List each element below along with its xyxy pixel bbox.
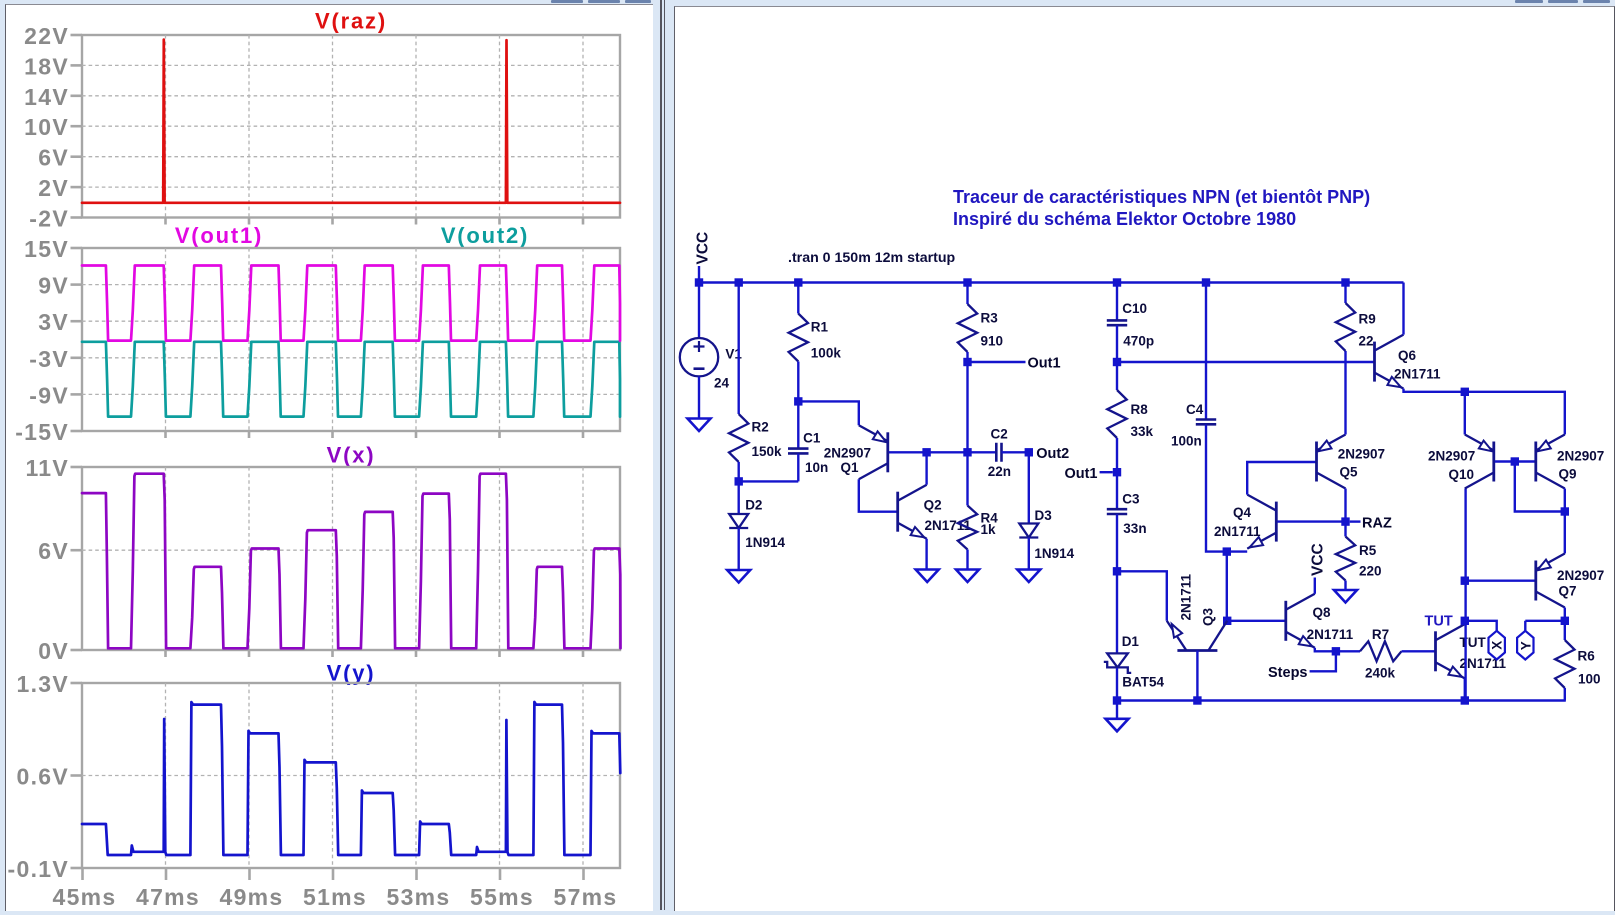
capacitor C10	[1107, 320, 1127, 325]
svg-text:Q1: Q1	[841, 460, 860, 475]
junction rail R3	[963, 278, 971, 286]
svg-text:RAZ: RAZ	[1362, 516, 1392, 532]
resistor R3	[958, 304, 977, 352]
junction Out1 flag node	[1113, 468, 1121, 476]
wire RAZ dash	[1350, 520, 1361, 522]
wire R4 bottom	[966, 550, 968, 570]
svg-text:100: 100	[1578, 672, 1601, 687]
junction node R1/C1/Q1e	[794, 397, 802, 405]
svg-text:D2: D2	[745, 498, 762, 513]
wire Q7 collector stub	[1564, 608, 1566, 621]
svg-text:2V: 2V	[38, 175, 69, 201]
junction C10/R8 node	[1113, 358, 1121, 366]
svg-text:9V: 9V	[38, 273, 69, 299]
svg-text:VCC: VCC	[695, 232, 712, 265]
resistor R9	[1336, 303, 1355, 351]
svg-text:Out2: Out2	[1036, 446, 1069, 462]
svg-text:.tran 0 150m 12m startup: .tran 0 150m 12m startup	[788, 250, 956, 266]
wire C1 bottom to D2 node	[739, 480, 799, 482]
trace V(out2)	[82, 342, 620, 417]
transistor Q1 2N2907	[886, 432, 889, 472]
svg-text:Q8: Q8	[1313, 605, 1332, 620]
trace V(y)	[82, 702, 620, 855]
ground V1	[688, 419, 711, 432]
wire C4 bottom	[1206, 425, 1247, 552]
svg-text:15V: 15V	[24, 236, 69, 262]
diode D1 BAT54	[1107, 653, 1128, 667]
svg-text:22: 22	[1359, 333, 1374, 348]
wire Steps flag	[1310, 651, 1336, 671]
svg-text:BAT54: BAT54	[1122, 675, 1164, 690]
svg-text:C4: C4	[1186, 402, 1204, 417]
wire X port run	[1465, 621, 1497, 631]
svg-text:18V: 18V	[24, 53, 69, 79]
wire C2 right	[1002, 451, 1029, 453]
wire Q10 collector bus	[1464, 489, 1466, 701]
svg-text:Y: Y	[1518, 641, 1533, 650]
wire Q8 emitter stub	[1315, 648, 1336, 652]
ground R5	[1334, 590, 1357, 603]
svg-text:X: X	[1490, 641, 1505, 650]
svg-text:100k: 100k	[811, 345, 842, 360]
wire Q8 collector to VCC flag	[1314, 578, 1316, 594]
svg-text:51ms: 51ms	[303, 884, 367, 910]
wire Q1 base	[889, 451, 996, 453]
wire Q6 emitter run	[1404, 389, 1565, 435]
transistor Q8 2N1711	[1284, 601, 1287, 641]
junction rail C4	[1202, 278, 1210, 286]
svg-text:R2: R2	[752, 420, 769, 435]
svg-text:Traceur de caractéristiques NP: Traceur de caractéristiques NPN (et bien…	[953, 187, 1370, 207]
wire Q1 emitter path	[798, 401, 859, 425]
transistor TUT 2N1711	[1434, 631, 1437, 671]
wire C3 top	[1116, 472, 1118, 509]
svg-text:Q9: Q9	[1559, 467, 1577, 482]
wire V1 top	[698, 283, 700, 339]
svg-text:11V: 11V	[25, 455, 69, 481]
wire R5 top	[1344, 522, 1346, 537]
wire R8 top	[1116, 362, 1118, 390]
svg-text:Q3: Q3	[1201, 607, 1216, 626]
junction Q7 base node	[1461, 577, 1469, 585]
ground D3	[1017, 570, 1040, 583]
wire V1 bottom	[698, 376, 700, 418]
port flag Y outline	[1517, 631, 1533, 660]
transistor Q10 2N2907	[1492, 442, 1495, 482]
svg-text:2N2907: 2N2907	[1557, 448, 1604, 463]
svg-text:V(raz): V(raz)	[315, 8, 387, 33]
junction rail R1	[794, 278, 802, 286]
transistor Q5 2N2907	[1315, 442, 1318, 482]
svg-text:-2V: -2V	[29, 206, 69, 232]
svg-text:1.3V: 1.3V	[16, 671, 69, 697]
junction node R2/C1/D2	[735, 477, 743, 485]
wire top VCC rail	[699, 281, 1404, 283]
svg-text:-9V: -9V	[29, 382, 69, 408]
svg-text:57ms: 57ms	[553, 884, 617, 910]
wire D1 bottom	[1116, 668, 1118, 701]
wire Out1 flag dash	[1100, 471, 1113, 473]
svg-text:C1: C1	[803, 430, 821, 445]
junction rail C10	[1113, 278, 1121, 286]
wire Y port run	[1525, 620, 1565, 622]
wire R3 node down	[966, 362, 968, 452]
junction rail R2	[735, 278, 743, 286]
svg-text:Q7: Q7	[1559, 584, 1577, 599]
wire D2 top	[738, 481, 740, 514]
svg-text:6V: 6V	[38, 538, 69, 564]
svg-text:0V: 0V	[38, 638, 69, 664]
svg-text:-15V: -15V	[15, 419, 69, 445]
svg-text:2N1711: 2N1711	[1307, 627, 1354, 642]
svg-text:V(out2): V(out2)	[441, 223, 529, 248]
wire base tie down	[1515, 462, 1565, 512]
svg-text:6V: 6V	[38, 145, 69, 171]
svg-text:49ms: 49ms	[219, 884, 283, 910]
svg-text:D3: D3	[1035, 508, 1053, 523]
svg-text:-3V: -3V	[29, 346, 69, 372]
svg-text:Q4: Q4	[1233, 505, 1252, 520]
svg-text:V(y): V(y)	[327, 661, 376, 686]
wire Q5 collector stub	[1344, 489, 1346, 522]
junction bottom rail D1	[1113, 696, 1121, 704]
svg-text:V(out1): V(out1)	[175, 223, 263, 248]
svg-text:1k: 1k	[981, 522, 997, 537]
right pane window	[674, 6, 1615, 911]
wire VCC stub	[698, 266, 700, 283]
wire R3 top	[966, 283, 968, 305]
V1 minus sign	[694, 367, 705, 370]
junction TUT collector node	[1461, 617, 1469, 625]
wire Q3c to Q8 base	[1227, 620, 1285, 622]
svg-text:2N1711: 2N1711	[1394, 366, 1441, 381]
svg-text:150k: 150k	[752, 444, 783, 459]
plot3 frame/grid	[82, 467, 620, 650]
capacitor C3	[1107, 509, 1127, 514]
svg-text:R3: R3	[981, 310, 999, 325]
transistor Q6 2N1711	[1373, 342, 1376, 382]
wire Q6 collector	[1402, 283, 1404, 335]
svg-text:R5: R5	[1359, 543, 1377, 558]
junction Out2/D3	[1025, 448, 1033, 456]
wire R9 top	[1344, 283, 1346, 304]
wire Q3 base stub	[1196, 651, 1198, 701]
port flag X outline	[1489, 631, 1505, 660]
junction Q6e/Q10e node	[1461, 388, 1469, 396]
plot1 frame/grid	[82, 35, 620, 218]
svg-text:Inspiré du schéma Elektor Octo: Inspiré du schéma Elektor Octobre 1980	[953, 209, 1296, 229]
wire TUT collector stub	[1464, 621, 1466, 625]
ground bottom rail	[1106, 719, 1129, 732]
wire R7 left	[1336, 650, 1360, 652]
wire Out1 stub	[968, 361, 1026, 363]
svg-text:10V: 10V	[24, 114, 69, 140]
plot2 frame/grid	[82, 248, 620, 431]
wire Y port stub	[1524, 621, 1526, 631]
wire C10 bottom	[1116, 325, 1118, 362]
svg-text:R8: R8	[1131, 402, 1149, 417]
wire Q4 base to RAZ node	[1277, 520, 1345, 522]
resistor R2	[729, 414, 748, 462]
wire C10 top	[1116, 283, 1118, 321]
window chrome top buttons right	[1515, 0, 1543, 3]
wire R6 top	[1564, 621, 1566, 640]
wire C4 top	[1205, 283, 1207, 420]
svg-text:3V: 3V	[38, 309, 69, 335]
wire R2 top	[738, 283, 740, 415]
wire D2 bottom	[738, 528, 740, 570]
svg-text:33k: 33k	[1131, 424, 1154, 439]
svg-text:55ms: 55ms	[470, 884, 534, 910]
wire D3 top	[1028, 452, 1030, 523]
trace V(out1)	[82, 266, 620, 341]
svg-text:Q5: Q5	[1340, 464, 1359, 479]
junction bottom rail Q3	[1193, 696, 1201, 704]
svg-text:22V: 22V	[24, 23, 69, 49]
capacitor C2	[996, 443, 1001, 462]
left pane plots svg	[0, 0, 652, 915]
wire C3 bottom	[1116, 514, 1118, 571]
ground R4	[956, 570, 979, 583]
junction RAZ node	[1341, 517, 1349, 525]
svg-text:14V: 14V	[24, 84, 69, 110]
svg-text:1N914: 1N914	[745, 535, 785, 550]
svg-text:Steps: Steps	[1268, 665, 1308, 681]
transistor Q7 2N2907	[1534, 561, 1537, 601]
trace V(x)	[82, 474, 621, 649]
svg-text:2N2907: 2N2907	[1338, 446, 1385, 461]
wire D1 top	[1116, 571, 1118, 653]
junction Q3 collector node	[1223, 617, 1231, 625]
wire R1 top	[797, 283, 799, 314]
wire R4 top	[966, 452, 968, 505]
Q4 emitter arrow	[1250, 537, 1264, 547]
wire Q9c to Q7e	[1564, 512, 1566, 554]
svg-text:R6: R6	[1578, 648, 1596, 663]
junction C3/D1/Q3e node	[1113, 567, 1121, 575]
resistor R4	[958, 506, 977, 550]
wire D3 bottom	[1028, 538, 1030, 570]
svg-text:-0.1V: -0.1V	[8, 856, 69, 882]
wire node to Q3 emitter	[1117, 571, 1167, 621]
wire Q10/Q9 base tie	[1495, 460, 1535, 462]
wire bottom ground stub	[1116, 701, 1118, 719]
svg-text:47ms: 47ms	[136, 884, 200, 910]
resistor R5	[1336, 537, 1355, 581]
svg-text:D1: D1	[1122, 634, 1140, 649]
svg-text:TUT: TUT	[1460, 635, 1487, 650]
svg-text:Q2: Q2	[924, 498, 942, 513]
wire Q2 collector stub	[925, 452, 927, 484]
wire Q2 emitter stub	[925, 539, 927, 570]
resistor R8	[1107, 390, 1126, 438]
transistor Q3 2N1711	[1177, 649, 1217, 652]
wire Q1 collector to Q2 base	[859, 479, 897, 511]
wire Q4 collector to Q5 base	[1247, 462, 1315, 495]
svg-text:470p: 470p	[1123, 333, 1154, 348]
V1 plus sign	[694, 341, 705, 352]
diode D3	[1019, 524, 1038, 538]
svg-text:2N1711: 2N1711	[1214, 524, 1261, 539]
svg-text:C2: C2	[991, 427, 1008, 442]
junction rail V1	[695, 278, 703, 286]
svg-text:24: 24	[714, 375, 730, 390]
wire C1 top	[797, 401, 799, 448]
svg-text:2N2907: 2N2907	[824, 445, 871, 460]
wire node to Q6 base	[1117, 361, 1374, 363]
svg-text:2N2907: 2N2907	[1557, 568, 1604, 583]
svg-text:V(x): V(x)	[327, 443, 376, 468]
trace V(raz)	[82, 40, 620, 203]
junction rail R9	[1341, 278, 1349, 286]
transistor Q2 2N1711	[896, 492, 899, 532]
wire C1 bottom stub	[797, 454, 799, 482]
svg-text:C10: C10	[1122, 301, 1147, 316]
junction Q2 collector node	[922, 448, 930, 456]
svg-text:R1: R1	[811, 320, 829, 335]
wire Q4e node down to Q3c	[1226, 552, 1228, 621]
svg-text:Q10: Q10	[1449, 467, 1475, 482]
svg-text:1N914: 1N914	[1034, 546, 1074, 561]
svg-text:240k: 240k	[1365, 666, 1396, 681]
junction base tie	[1511, 457, 1519, 465]
svg-text:Out1: Out1	[1028, 355, 1061, 371]
wire Q10 emitter stub	[1464, 392, 1466, 435]
svg-text:53ms: 53ms	[386, 884, 450, 910]
transistor Q4 2N1711	[1275, 502, 1278, 542]
wire bottom rail	[1117, 699, 1566, 701]
wire R3 bottom	[966, 352, 968, 362]
transistor Q9 2N2907	[1534, 442, 1537, 482]
svg-text:100n: 100n	[1171, 433, 1202, 448]
resistor R6	[1555, 640, 1574, 688]
ground D2	[727, 570, 750, 583]
wire Q5 emitter stub to R9	[1344, 351, 1346, 435]
svg-text:33n: 33n	[1123, 521, 1146, 536]
junction C4/Q4e/Q3c node	[1223, 547, 1231, 555]
resistor R1	[789, 314, 808, 362]
svg-text:Q6: Q6	[1398, 348, 1417, 363]
svg-text:220: 220	[1359, 564, 1382, 579]
svg-text:10n: 10n	[805, 460, 828, 475]
wire R2 bottom	[738, 462, 740, 481]
svg-text:R9: R9	[1359, 311, 1376, 326]
left pane right double border	[660, 0, 662, 910]
resistor R7	[1360, 641, 1402, 661]
svg-text:Out1: Out1	[1064, 466, 1097, 482]
plot4 frame/grid	[82, 683, 620, 868]
junction Q7c/R6/Y node	[1561, 617, 1569, 625]
wire R8 bottom	[1116, 438, 1118, 472]
svg-text:45ms: 45ms	[52, 884, 116, 910]
svg-text:R7: R7	[1372, 627, 1389, 642]
wire R6 bottom	[1564, 688, 1566, 701]
svg-text:C3: C3	[1122, 492, 1140, 507]
wire Q9 collector stub	[1564, 489, 1566, 512]
junction Steps/R7 node	[1332, 647, 1340, 655]
svg-text:VCC: VCC	[1310, 543, 1327, 576]
svg-text:2N1711: 2N1711	[1179, 573, 1194, 620]
wire R1 bottom	[797, 362, 799, 402]
svg-text:2N2907: 2N2907	[1428, 448, 1475, 463]
svg-text:910: 910	[981, 333, 1004, 348]
svg-text:TUT: TUT	[1425, 614, 1453, 630]
wire R7 right	[1402, 650, 1435, 652]
wire TUT emitter stub	[1464, 678, 1466, 700]
capacitor C1	[788, 449, 809, 454]
voltage source V1 circle	[680, 338, 718, 376]
junction R3/R4/C2 node	[963, 448, 971, 456]
window chrome top buttons left	[551, 0, 583, 3]
wire Q7 base	[1465, 580, 1535, 582]
junction Q9c node	[1561, 507, 1569, 515]
wire R5 bottom	[1344, 581, 1346, 591]
ground Q2	[916, 570, 939, 583]
svg-text:0.6V: 0.6V	[16, 764, 69, 790]
svg-text:22n: 22n	[988, 464, 1011, 479]
capacitor C4	[1196, 420, 1216, 425]
left pane window	[5, 4, 653, 911]
diode D2	[729, 514, 748, 528]
right pane schematic svg	[674, 0, 1615, 915]
junction Out1 node	[963, 358, 971, 366]
junction bottom rail TUT	[1461, 696, 1469, 704]
